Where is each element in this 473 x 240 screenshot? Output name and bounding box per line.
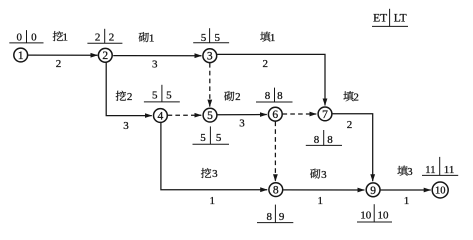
svg-text:2: 2 (353, 91, 359, 103)
svg-text:2: 2 (56, 58, 62, 70)
svg-text:8: 8 (273, 185, 279, 197)
svg-text:5: 5 (207, 110, 213, 122)
svg-text:3: 3 (207, 51, 213, 63)
svg-text:5: 5 (152, 90, 158, 102)
svg-text:11: 11 (444, 164, 455, 176)
svg-text:6: 6 (272, 109, 278, 121)
svg-text:7: 7 (322, 109, 328, 121)
svg-text:1: 1 (63, 31, 69, 43)
svg-text:2: 2 (347, 119, 353, 131)
svg-text:11: 11 (425, 164, 436, 176)
svg-text:1: 1 (404, 195, 410, 207)
svg-text:2: 2 (109, 32, 115, 44)
svg-text:0: 0 (16, 31, 22, 43)
svg-text:8: 8 (267, 211, 273, 223)
svg-text:1: 1 (18, 50, 24, 62)
svg-text:5: 5 (201, 32, 207, 44)
svg-text:10: 10 (360, 210, 372, 222)
svg-text:9: 9 (370, 185, 376, 197)
svg-text:8: 8 (327, 134, 333, 146)
svg-text:5: 5 (216, 132, 222, 144)
svg-text:8: 8 (277, 90, 283, 102)
svg-text:9: 9 (279, 211, 285, 223)
svg-text:2: 2 (127, 91, 133, 103)
svg-text:2: 2 (263, 58, 269, 70)
svg-text:1: 1 (210, 195, 216, 207)
svg-text:3: 3 (152, 58, 158, 70)
svg-text:1: 1 (317, 195, 323, 207)
svg-text:8: 8 (265, 90, 271, 102)
svg-text:5: 5 (200, 132, 206, 144)
svg-text:0: 0 (31, 31, 37, 43)
svg-text:1: 1 (149, 32, 155, 44)
svg-text:3: 3 (123, 120, 129, 132)
svg-text:2: 2 (235, 91, 241, 103)
svg-text:3: 3 (212, 168, 218, 180)
svg-text:ET: ET (373, 12, 387, 24)
svg-text:3: 3 (239, 118, 245, 130)
svg-text:10: 10 (435, 186, 446, 197)
svg-text:8: 8 (314, 134, 320, 146)
svg-text:2: 2 (95, 32, 101, 44)
svg-text:5: 5 (214, 32, 220, 44)
svg-text:10: 10 (378, 210, 390, 222)
svg-text:3: 3 (407, 166, 413, 178)
svg-text:5: 5 (166, 90, 172, 102)
svg-text:4: 4 (158, 110, 164, 122)
svg-text:LT: LT (394, 12, 407, 24)
svg-text:2: 2 (102, 50, 108, 62)
svg-text:1: 1 (270, 32, 276, 44)
svg-text:3: 3 (321, 169, 327, 181)
